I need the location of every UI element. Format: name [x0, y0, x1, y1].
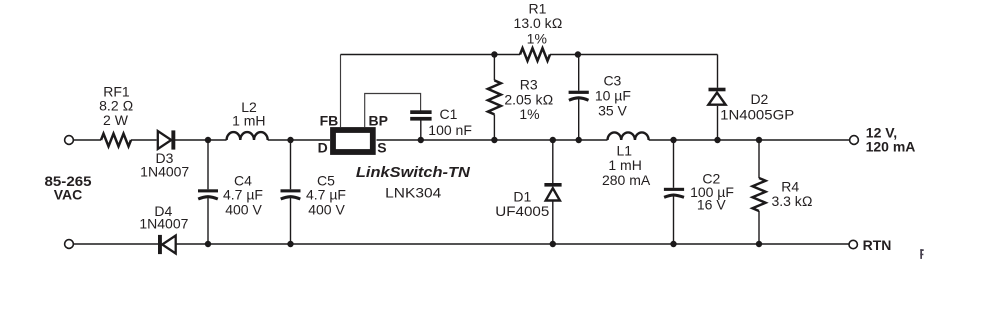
capacitor C5: [281, 140, 301, 244]
svg-text:LinkSwitch-TN: LinkSwitch-TN: [356, 165, 471, 181]
svg-text:R3: R3: [520, 77, 538, 93]
op-amp IC U1 LinkSwitch-TN body: [333, 130, 373, 152]
svg-text:1 mH: 1 mH: [608, 157, 641, 173]
svg-text:2 W: 2 W: [103, 112, 129, 128]
node: R4 top junction: [756, 137, 762, 143]
svg-text:VAC: VAC: [54, 187, 83, 203]
capacitor C3: [569, 55, 589, 141]
svg-text:1N4005GP: 1N4005GP: [720, 106, 794, 122]
capacitor C2: [664, 140, 684, 244]
label L1: [602, 142, 651, 187]
node: C5 top junction: [287, 137, 293, 143]
label D2: [720, 91, 794, 123]
capacitor C1: [410, 110, 431, 140]
label AC input 85-265 VAC: [45, 173, 92, 202]
capacitor C4: [198, 140, 218, 244]
svg-text:4.7 µF: 4.7 µF: [306, 187, 346, 203]
node: D2 bottom junction: [714, 137, 720, 143]
wire: AC input top rail to RF1: [74, 139, 102, 141]
terminal: AC input top: [65, 136, 74, 145]
svg-text:400 V: 400 V: [308, 202, 345, 218]
label pin S: [377, 139, 386, 155]
node: C2 bottom junction: [670, 241, 676, 247]
svg-text:C3: C3: [603, 73, 621, 89]
node: D1 top junction: [550, 137, 556, 143]
svg-text:100 nF: 100 nF: [428, 122, 472, 138]
svg-text:4.7 µF: 4.7 µF: [223, 187, 263, 203]
label pin BP: [369, 112, 388, 128]
diode D2: [708, 55, 725, 141]
svg-text:R4: R4: [781, 178, 799, 194]
svg-text:D1: D1: [513, 188, 531, 204]
node: C1 bottom junction: [418, 137, 424, 143]
svg-text:2.05 kΩ: 2.05 kΩ: [504, 92, 553, 108]
wire: L2 to IC D pin: [268, 139, 330, 141]
node: R4 bottom junction: [756, 241, 762, 247]
svg-text:1N4007: 1N4007: [139, 215, 188, 231]
wire: L1 to output: [649, 139, 850, 141]
svg-text:R1: R1: [529, 0, 547, 16]
svg-text:35 V: 35 V: [598, 102, 627, 118]
node: C4 bottom junction: [205, 241, 211, 247]
label R3: [504, 77, 553, 123]
label pin FB: [320, 112, 339, 128]
resistor R3: [488, 55, 501, 141]
text fragment F bottom right: [920, 249, 923, 259]
wire: bottom rail left: [74, 243, 159, 245]
svg-text:16 V: 16 V: [697, 197, 726, 213]
inductor L2: [227, 132, 268, 140]
label C5: [306, 172, 346, 217]
terminal: 12V output: [850, 136, 859, 145]
node: R3 top junction: [491, 51, 497, 57]
terminal: RTN: [849, 240, 857, 248]
wire: S pin to L1: [377, 139, 608, 141]
wire: bottom rail right: [176, 243, 848, 245]
label LNK304: [385, 184, 441, 200]
resistor R4: [753, 140, 766, 244]
label C3: [595, 73, 631, 119]
wire: R1 to D2 top: [550, 54, 718, 56]
label R1: [514, 0, 563, 46]
node: C5 bottom junction: [287, 241, 293, 247]
label 12V output: [866, 125, 916, 155]
label LinkSwitch-TN: [356, 165, 471, 181]
svg-text:D2: D2: [750, 91, 768, 107]
resistor RF1: [101, 134, 131, 147]
pin BP wire to C1: [365, 94, 421, 128]
svg-text:280 mA: 280 mA: [602, 172, 651, 188]
svg-text:D: D: [318, 140, 328, 156]
svg-text:LNK304: LNK304: [385, 184, 441, 200]
svg-text:8.2 Ω: 8.2 Ω: [99, 97, 133, 113]
resistor R1: [520, 48, 550, 61]
svg-text:RTN: RTN: [863, 237, 892, 253]
label RTN: [863, 237, 892, 253]
node: R3 bottom junction: [491, 137, 497, 143]
label pin D: [318, 140, 328, 156]
svg-text:L1: L1: [617, 142, 633, 158]
label D3: [140, 150, 189, 179]
pin FB: [340, 55, 342, 128]
svg-text:C1: C1: [440, 106, 458, 122]
node: C3 top junction: [575, 51, 581, 57]
svg-text:120 mA: 120 mA: [866, 138, 916, 154]
node: C3 bottom junction: [576, 137, 582, 143]
svg-text:3.3 kΩ: 3.3 kΩ: [771, 193, 812, 209]
svg-text:1N4007: 1N4007: [140, 163, 189, 179]
inductor L1: [608, 132, 649, 140]
label RF1 value: [99, 83, 133, 128]
wire: FB node top: [341, 54, 521, 56]
svg-text:UF4005: UF4005: [495, 203, 549, 219]
label R4: [771, 178, 812, 209]
label D4: [139, 203, 188, 231]
label C1: [428, 106, 472, 138]
label C4: [223, 172, 263, 217]
wire: D3 to L2: [175, 139, 227, 141]
label C2: [690, 171, 734, 213]
node: C4 top junction: [205, 137, 211, 143]
wire: RF1 to D3: [131, 139, 157, 141]
diode D1: [544, 140, 561, 244]
svg-text:1%: 1%: [519, 106, 539, 122]
svg-text:13.0 kΩ: 13.0 kΩ: [514, 15, 563, 31]
diode D4: [158, 235, 176, 254]
node: C2 top junction: [670, 137, 676, 143]
svg-text:1 mH: 1 mH: [232, 113, 265, 129]
label L2: [232, 99, 265, 128]
svg-text:FB: FB: [320, 112, 339, 128]
svg-text:1%: 1%: [527, 30, 547, 46]
label D1: [495, 188, 549, 219]
diode D3: [158, 130, 175, 149]
svg-text:BP: BP: [369, 112, 388, 128]
node: D1 bottom junction: [550, 241, 556, 247]
svg-text:400 V: 400 V: [225, 202, 262, 218]
terminal: AC input bottom: [65, 240, 74, 249]
svg-text:S: S: [377, 139, 386, 155]
svg-text:10 µF: 10 µF: [595, 88, 631, 104]
